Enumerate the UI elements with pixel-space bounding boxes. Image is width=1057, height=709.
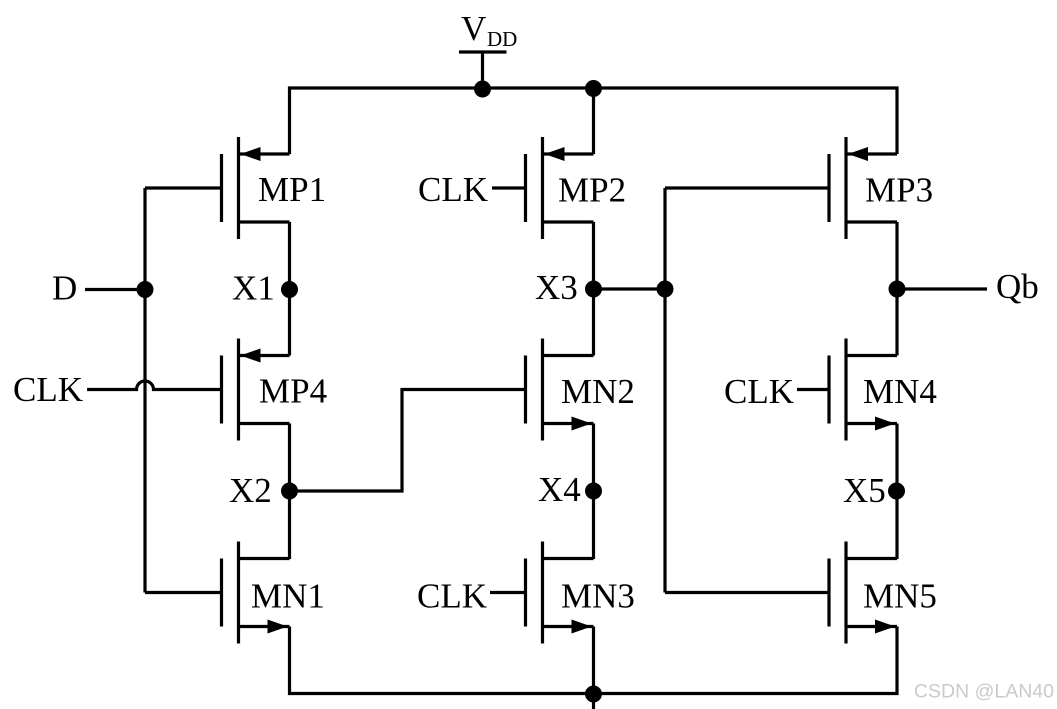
svg-text:X3: X3 bbox=[535, 268, 578, 307]
svg-text:Qb: Qb bbox=[996, 267, 1039, 306]
svg-text:MP1: MP1 bbox=[258, 170, 326, 209]
svg-text:MP2: MP2 bbox=[558, 171, 626, 210]
svg-text:D: D bbox=[52, 269, 77, 308]
svg-text:DD: DD bbox=[487, 27, 517, 51]
svg-text:MN4: MN4 bbox=[863, 372, 937, 411]
svg-text:CLK: CLK bbox=[418, 170, 488, 209]
svg-text:MP3: MP3 bbox=[865, 171, 933, 210]
svg-text:MN2: MN2 bbox=[561, 372, 635, 411]
svg-text:X2: X2 bbox=[229, 471, 272, 510]
svg-text:CLK: CLK bbox=[13, 370, 83, 409]
svg-text:CLK: CLK bbox=[724, 372, 794, 411]
svg-text:MP4: MP4 bbox=[259, 372, 327, 411]
svg-text:CLK: CLK bbox=[417, 577, 487, 616]
svg-text:V: V bbox=[461, 9, 486, 48]
svg-text:X4: X4 bbox=[538, 470, 581, 509]
svg-text:CSDN @LAN40: CSDN @LAN40 bbox=[914, 681, 1054, 703]
svg-text:MN5: MN5 bbox=[863, 577, 937, 616]
svg-text:X5: X5 bbox=[843, 471, 886, 510]
svg-text:MN3: MN3 bbox=[561, 577, 635, 616]
svg-text:X1: X1 bbox=[232, 269, 275, 308]
svg-text:MN1: MN1 bbox=[251, 577, 325, 616]
